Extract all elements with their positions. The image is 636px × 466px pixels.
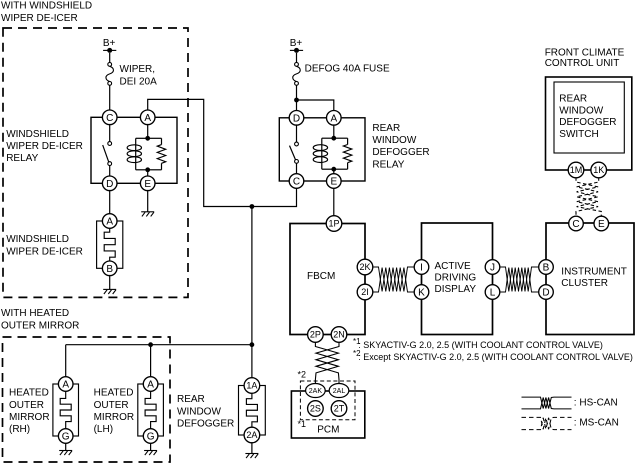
svg-text:RELAY: RELAY bbox=[372, 159, 404, 170]
svg-text:C: C bbox=[572, 219, 579, 230]
svg-text:2I: 2I bbox=[361, 287, 369, 297]
svg-text:A: A bbox=[330, 113, 337, 124]
svg-text:C: C bbox=[293, 177, 300, 188]
svg-text:WINDSHIELD: WINDSHIELD bbox=[6, 129, 69, 140]
svg-text:2T: 2T bbox=[334, 404, 345, 414]
svg-text:I: I bbox=[420, 263, 423, 274]
svg-text:L: L bbox=[490, 288, 496, 299]
svg-text:INSTRUMENT: INSTRUMENT bbox=[561, 267, 627, 278]
svg-text:REAR: REAR bbox=[559, 94, 587, 105]
svg-text:C: C bbox=[106, 113, 113, 124]
svg-text:A: A bbox=[144, 113, 151, 124]
svg-text:MIRROR: MIRROR bbox=[9, 412, 50, 423]
svg-text:2AL: 2AL bbox=[333, 388, 346, 395]
svg-text:CLUSTER: CLUSTER bbox=[561, 278, 608, 289]
svg-text:WIPER DE-ICER: WIPER DE-ICER bbox=[6, 246, 83, 257]
svg-text:B+: B+ bbox=[290, 38, 303, 49]
svg-text:2K: 2K bbox=[359, 262, 370, 272]
svg-text:1A: 1A bbox=[246, 381, 257, 391]
svg-text:: SKYACTIV-G 2.0, 2.5 (WITH CO: : SKYACTIV-G 2.0, 2.5 (WITH COOLANT CONT… bbox=[358, 340, 603, 350]
svg-text:DEI 20A: DEI 20A bbox=[120, 76, 158, 87]
svg-text:2S: 2S bbox=[310, 404, 321, 414]
svg-text:*2: *2 bbox=[298, 370, 307, 380]
svg-text:D: D bbox=[106, 179, 113, 190]
svg-text:WINDSHIELD: WINDSHIELD bbox=[6, 234, 69, 245]
svg-text:SWITCH: SWITCH bbox=[559, 129, 598, 140]
svg-text:OUTER: OUTER bbox=[94, 400, 129, 411]
svg-text:E: E bbox=[144, 179, 151, 190]
svg-text:2N: 2N bbox=[333, 330, 345, 340]
svg-text:1P: 1P bbox=[328, 219, 339, 229]
svg-text:FRONT CLIMATE: FRONT CLIMATE bbox=[545, 48, 625, 59]
svg-text:OUTER: OUTER bbox=[9, 400, 44, 411]
svg-text:A: A bbox=[106, 217, 113, 228]
svg-text:D: D bbox=[542, 288, 549, 299]
svg-text:2P: 2P bbox=[310, 330, 321, 340]
svg-text:E: E bbox=[330, 177, 337, 188]
svg-text:G: G bbox=[62, 432, 70, 443]
svg-text:WIPER DE-ICER: WIPER DE-ICER bbox=[6, 141, 83, 152]
svg-text:2A: 2A bbox=[246, 430, 257, 440]
svg-text:A: A bbox=[147, 380, 154, 391]
svg-text:B: B bbox=[543, 263, 550, 274]
svg-text:DRIVING: DRIVING bbox=[435, 272, 477, 283]
svg-text:WINDOW: WINDOW bbox=[372, 135, 416, 146]
svg-text:B+: B+ bbox=[103, 38, 116, 49]
svg-text:DEFOGGER: DEFOGGER bbox=[177, 418, 234, 429]
svg-text:WIPER,: WIPER, bbox=[120, 64, 156, 75]
svg-text:DEFOGGER: DEFOGGER bbox=[372, 147, 429, 158]
svg-text:2AK: 2AK bbox=[309, 388, 323, 395]
svg-text:*1: *1 bbox=[298, 419, 307, 429]
svg-text:WINDOW: WINDOW bbox=[559, 105, 603, 116]
svg-text:(RH): (RH) bbox=[9, 424, 30, 435]
svg-text:WIPER DE-ICER: WIPER DE-ICER bbox=[1, 13, 78, 24]
svg-text:RELAY: RELAY bbox=[6, 153, 38, 164]
svg-text:OUTER MIRROR: OUTER MIRROR bbox=[1, 320, 79, 331]
svg-text:J: J bbox=[490, 263, 495, 274]
svg-text:HEATED: HEATED bbox=[9, 388, 49, 399]
svg-text:: MS-CAN: : MS-CAN bbox=[574, 418, 619, 429]
svg-text:E: E bbox=[598, 219, 605, 230]
svg-text:REAR: REAR bbox=[177, 394, 205, 405]
svg-text:K: K bbox=[418, 288, 425, 299]
svg-text:ACTIVE: ACTIVE bbox=[435, 261, 471, 272]
svg-text:PCM: PCM bbox=[317, 425, 339, 436]
svg-text:DISPLAY: DISPLAY bbox=[435, 284, 477, 295]
svg-text:(LH): (LH) bbox=[94, 424, 113, 435]
svg-text:WITH HEATED: WITH HEATED bbox=[1, 308, 69, 319]
svg-text:1M: 1M bbox=[570, 165, 583, 175]
svg-text:WINDOW: WINDOW bbox=[177, 406, 221, 417]
svg-text:WITH WINDSHIELD: WITH WINDSHIELD bbox=[1, 1, 92, 12]
svg-text:DEFOGGER: DEFOGGER bbox=[559, 117, 616, 128]
svg-text:G: G bbox=[147, 432, 155, 443]
svg-text:REAR: REAR bbox=[372, 123, 400, 134]
svg-text:HEATED: HEATED bbox=[94, 388, 134, 399]
svg-text:FBCM: FBCM bbox=[307, 271, 335, 282]
svg-text:B: B bbox=[106, 264, 113, 275]
svg-text:1K: 1K bbox=[593, 165, 604, 175]
svg-text:: Except SKYACTIV-G 2.0, 2.5 (: : Except SKYACTIV-G 2.0, 2.5 (WITH COOLA… bbox=[358, 352, 633, 362]
svg-text:D: D bbox=[293, 113, 300, 124]
svg-text:DEFOG 40A FUSE: DEFOG 40A FUSE bbox=[305, 64, 390, 75]
svg-text:A: A bbox=[62, 380, 69, 391]
svg-text:CONTROL UNIT: CONTROL UNIT bbox=[545, 58, 620, 69]
svg-text:: HS-CAN: : HS-CAN bbox=[574, 397, 618, 408]
svg-text:MIRROR: MIRROR bbox=[94, 412, 135, 423]
